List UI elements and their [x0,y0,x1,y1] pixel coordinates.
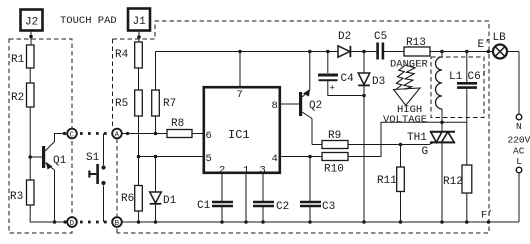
main unit dashed enclosure [113,21,490,233]
node A [112,129,122,140]
resistor R12 [443,165,472,224]
capacitor C4 [318,52,364,96]
transistor Q2 [299,52,322,145]
svg-text:1: 1 [243,165,249,177]
svg-text:4: 4 [272,153,278,165]
wire R10 right up and across [348,121,467,157]
ground bus wire [122,220,519,224]
diode D2 [338,31,377,57]
wire J2 lead [29,31,33,45]
capacitor C1 [197,200,233,224]
svg-text:C2: C2 [276,201,289,213]
diode D1 [150,155,177,224]
wire J1 lead [137,32,141,43]
pin 3 [260,165,266,202]
svg-text:R13: R13 [406,37,426,49]
svg-text:R4: R4 [115,49,129,61]
svg-text:3: 3 [260,165,266,177]
wire R9 to gate node [348,143,402,147]
node C [67,129,77,140]
lamp LB [493,32,508,59]
svg-text:R12: R12 [443,176,463,188]
svg-text:L: L [516,156,522,167]
svg-text:R6: R6 [121,193,134,205]
wire R4-R5 [138,68,140,90]
resistor R2 [11,83,34,107]
triac TH1 [407,122,455,224]
svg-text:D3: D3 [372,76,385,88]
svg-text:8: 8 [272,100,278,112]
wire R5 down to pin5 line [137,116,141,158]
high voltage lightning arrow [394,65,421,105]
svg-text:R11: R11 [377,175,397,187]
svg-text:R2: R2 [11,92,24,104]
resistor R7 [152,90,177,116]
resistor R11 [377,145,404,224]
svg-text:TOUCH PAD: TOUCH PAD [60,15,117,27]
svg-text:R7: R7 [163,98,176,110]
switch S1 [86,134,106,223]
pin 1 [243,165,249,224]
triac gate wire [401,142,435,158]
svg-text:R5: R5 [115,98,128,110]
resistor R10 [322,153,348,176]
diode D3 [358,52,385,224]
pin 2 [219,165,225,202]
svg-text:AC: AC [513,146,525,157]
svg-text:2: 2 [219,165,225,177]
svg-text:R8: R8 [171,118,184,130]
resistor R8 [167,118,192,138]
node D [67,217,77,228]
svg-text:G: G [422,146,429,158]
svg-text:C4: C4 [341,73,355,85]
resistor R3 [10,180,34,205]
svg-text:7: 7 [237,89,243,101]
pin 4 [272,153,323,165]
svg-text:220V: 220V [508,135,530,146]
svg-text:VOLTAGE: VOLTAGE [383,114,427,126]
pin 8 [272,100,300,112]
inductor L1 [436,52,463,123]
svg-text:Q2: Q2 [309,100,322,112]
svg-text:DANGER: DANGER [390,59,429,71]
terminal N [516,114,522,132]
dotted link D to B [80,221,112,224]
svg-text:D2: D2 [338,31,351,43]
wire R7 top to supply rail corner [155,52,157,91]
svg-text:R3: R3 [10,191,23,203]
capacitor C2 [253,201,289,224]
resistor R1 [11,45,34,68]
svg-text:TH1: TH1 [407,132,427,144]
capacitor C3 [300,157,335,224]
wire R13 to lamp [430,50,493,54]
touch-pad module dashed box [9,39,72,233]
resistor R6 [121,157,142,224]
wire R1-R2 [29,68,31,83]
node B [112,217,122,228]
svg-text:C3: C3 [322,201,335,213]
svg-text:J1: J1 [133,16,147,28]
svg-text:S1: S1 [86,152,100,164]
svg-text:F’: F’ [481,210,493,222]
svg-text:R9: R9 [328,130,341,142]
svg-text:R10: R10 [324,164,344,176]
wire R3 to node D [30,205,67,224]
label 220V AC [508,135,530,157]
op-amp IC1 box [204,87,280,173]
svg-text:E’: E’ [478,39,491,51]
wire R2-R3 [28,107,32,180]
resistor R5 [115,90,142,116]
svg-text:R1: R1 [11,54,25,66]
resistor R13 [404,37,430,56]
resistor R4 [115,42,142,68]
resistor R9 [312,130,348,149]
terminal L [516,156,522,173]
svg-text:+: + [330,84,335,94]
svg-text:C: C [70,132,75,140]
pin 7 [237,52,243,102]
svg-text:5: 5 [206,153,212,165]
dotted link C to A [80,132,112,135]
wire pin5 line [139,156,204,158]
svg-text:C6’: C6’ [468,71,488,83]
svg-text:D1: D1 [163,195,177,207]
wire L terminal to bus [518,173,520,222]
capacitor C6' [457,52,487,166]
wire R7 bottom [155,116,157,134]
svg-text:C5: C5 [374,31,387,43]
lamp module dashed box [431,57,484,118]
wire R8 to pin 6 [192,133,203,135]
svg-text:L1: L1 [449,71,463,83]
connector J2 [21,10,43,31]
svg-text:N: N [516,121,522,132]
svg-text:6: 6 [206,130,212,142]
connector J1 [128,9,150,31]
capacitor C5 [374,31,404,60]
svg-text:LB: LB [493,32,507,44]
svg-text:Q1: Q1 [53,155,67,167]
supply rail [156,50,339,54]
transistor Q1 [30,132,67,222]
svg-text:IC1: IC1 [228,128,250,142]
wire lamp to N terminal [507,51,519,53]
svg-text:D: D [70,220,75,228]
svg-text:B: B [115,220,120,228]
svg-text:A: A [115,132,120,140]
svg-text:C1: C1 [197,200,211,212]
svg-text:J2: J2 [25,17,38,29]
wire node A to R8 (pin 6 net) [122,132,167,136]
